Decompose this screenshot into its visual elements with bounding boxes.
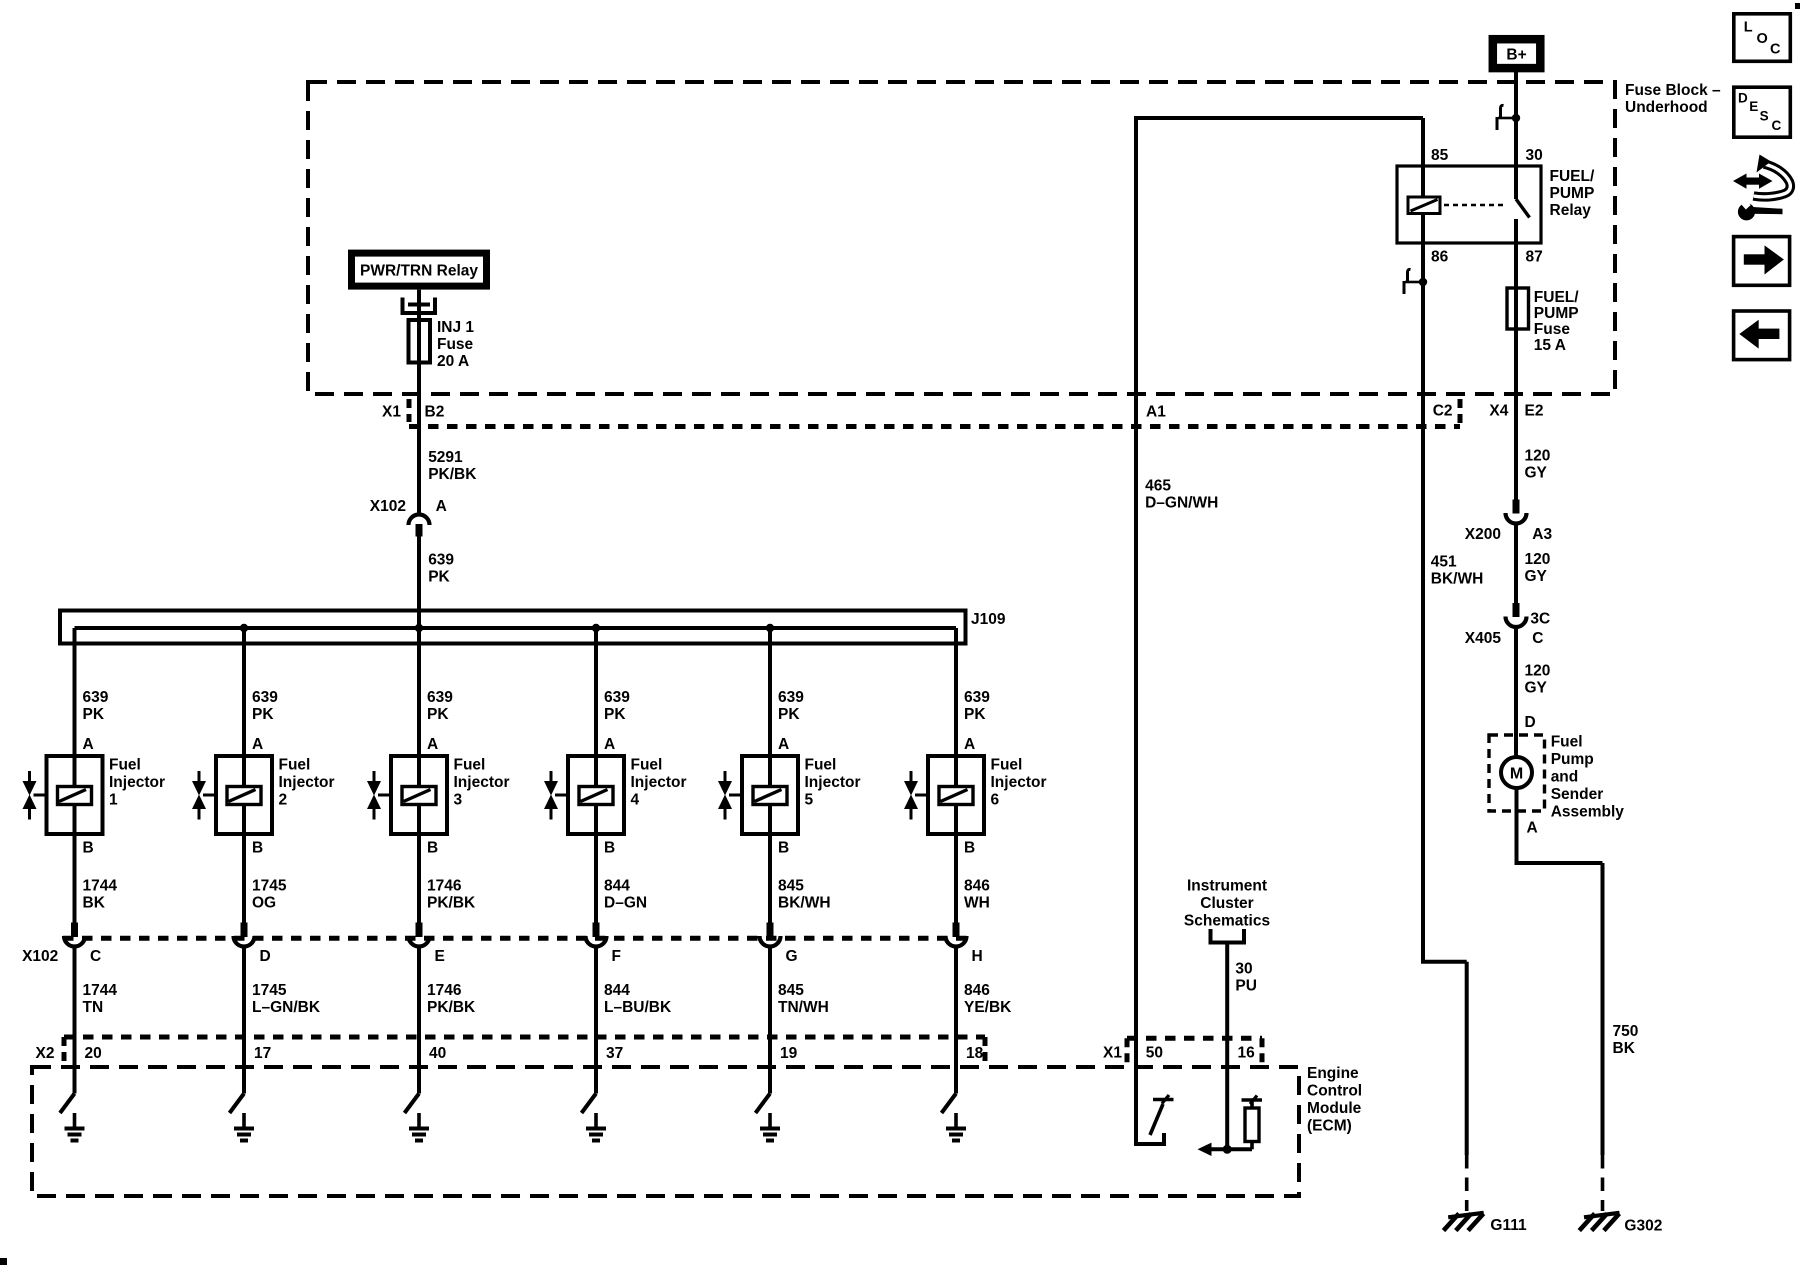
- svg-text:E: E: [435, 948, 445, 965]
- svg-text:D: D: [260, 948, 271, 965]
- svg-text:B2: B2: [425, 403, 445, 420]
- svg-text:S: S: [1760, 108, 1769, 123]
- svg-text:Injector: Injector: [279, 774, 335, 791]
- svg-text:and: and: [1551, 768, 1579, 785]
- svg-text:40: 40: [429, 1045, 446, 1062]
- svg-text:(ECM): (ECM): [1307, 1117, 1352, 1134]
- svg-text:M: M: [1510, 766, 1523, 783]
- svg-text:846: 846: [964, 982, 990, 999]
- svg-text:BK: BK: [83, 895, 106, 912]
- svg-text:120: 120: [1525, 448, 1551, 465]
- svg-text:Fuel: Fuel: [454, 756, 486, 773]
- svg-text:639: 639: [604, 689, 630, 706]
- svg-text:846: 846: [964, 878, 990, 895]
- svg-text:YE/BK: YE/BK: [964, 999, 1012, 1016]
- svg-text:15 A: 15 A: [1534, 337, 1566, 354]
- svg-text:BK/WH: BK/WH: [1431, 571, 1484, 588]
- svg-text:Fuel: Fuel: [279, 756, 311, 773]
- svg-text:X405: X405: [1465, 630, 1502, 647]
- svg-text:PK: PK: [778, 706, 800, 723]
- svg-text:PK: PK: [427, 706, 449, 723]
- svg-text:1745: 1745: [252, 878, 287, 895]
- svg-text:5: 5: [805, 791, 814, 808]
- svg-text:Injector: Injector: [631, 774, 687, 791]
- svg-text:FUEL/: FUEL/: [1534, 289, 1579, 306]
- svg-text:A3: A3: [1532, 526, 1552, 543]
- svg-text:85: 85: [1431, 147, 1449, 164]
- svg-text:TN/WH: TN/WH: [778, 999, 829, 1016]
- svg-text:X102: X102: [22, 948, 58, 965]
- svg-text:C: C: [1532, 630, 1543, 647]
- svg-text:PK: PK: [83, 706, 105, 723]
- svg-text:845: 845: [778, 982, 804, 999]
- svg-text:A: A: [83, 736, 94, 753]
- svg-text:Injector: Injector: [454, 774, 510, 791]
- svg-text:Assembly: Assembly: [1551, 803, 1625, 820]
- svg-text:C: C: [1772, 118, 1782, 133]
- svg-text:E: E: [1749, 99, 1758, 114]
- svg-text:OG: OG: [252, 895, 276, 912]
- svg-text:17: 17: [254, 1045, 271, 1062]
- svg-text:37: 37: [606, 1045, 623, 1062]
- svg-text:639: 639: [252, 689, 278, 706]
- svg-text:6: 6: [991, 791, 1000, 808]
- svg-text:Fuse: Fuse: [1534, 321, 1571, 338]
- svg-text:3C: 3C: [1530, 610, 1550, 627]
- svg-text:L: L: [1744, 20, 1753, 36]
- svg-text:Injector: Injector: [109, 774, 165, 791]
- svg-text:G302: G302: [1624, 1218, 1662, 1235]
- svg-text:Fuel: Fuel: [991, 756, 1023, 773]
- svg-text:Control: Control: [1307, 1082, 1362, 1099]
- svg-text:844: 844: [604, 878, 630, 895]
- svg-text:639: 639: [83, 689, 109, 706]
- svg-text:G: G: [786, 948, 798, 965]
- svg-text:86: 86: [1431, 249, 1449, 266]
- svg-text:20 A: 20 A: [437, 353, 469, 370]
- svg-text:PU: PU: [1235, 977, 1257, 994]
- svg-text:750: 750: [1613, 1023, 1639, 1040]
- svg-text:1746: 1746: [427, 878, 462, 895]
- svg-text:PK/BK: PK/BK: [427, 999, 476, 1016]
- svg-text:C2: C2: [1433, 403, 1453, 420]
- svg-text:A: A: [436, 498, 447, 515]
- svg-text:Injector: Injector: [991, 774, 1047, 791]
- svg-text:5291: 5291: [428, 449, 463, 466]
- svg-text:X102: X102: [370, 498, 406, 515]
- svg-text:Underhood: Underhood: [1625, 99, 1708, 116]
- svg-text:GY: GY: [1525, 679, 1548, 696]
- svg-text:465: 465: [1145, 478, 1171, 495]
- svg-text:FUEL/: FUEL/: [1550, 168, 1595, 185]
- svg-text:PK: PK: [428, 569, 450, 586]
- svg-text:50: 50: [1146, 1045, 1163, 1062]
- svg-text:L–GN/BK: L–GN/BK: [252, 999, 321, 1016]
- svg-text:Fuse: Fuse: [437, 336, 474, 353]
- svg-text:30: 30: [1235, 960, 1252, 977]
- svg-text:120: 120: [1525, 662, 1551, 679]
- svg-text:1745: 1745: [252, 982, 287, 999]
- svg-text:Module: Module: [1307, 1100, 1362, 1117]
- svg-text:1746: 1746: [427, 982, 462, 999]
- svg-text:B: B: [83, 840, 94, 857]
- svg-text:H: H: [972, 948, 983, 965]
- svg-text:GY: GY: [1525, 465, 1548, 482]
- svg-text:1744: 1744: [83, 878, 118, 895]
- svg-text:X1: X1: [382, 403, 401, 420]
- svg-text:Schematics: Schematics: [1184, 913, 1270, 930]
- svg-text:Fuel: Fuel: [805, 756, 837, 773]
- svg-text:PUMP: PUMP: [1534, 305, 1579, 322]
- svg-text:Fuse Block –: Fuse Block –: [1625, 82, 1721, 99]
- svg-text:120: 120: [1525, 551, 1551, 568]
- svg-text:F: F: [612, 948, 621, 965]
- svg-text:PK: PK: [964, 706, 986, 723]
- svg-text:Fuel: Fuel: [631, 756, 663, 773]
- svg-text:BK: BK: [1613, 1040, 1636, 1057]
- svg-text:B: B: [604, 840, 615, 857]
- svg-text:639: 639: [778, 689, 804, 706]
- svg-text:X200: X200: [1465, 526, 1501, 543]
- svg-text:1744: 1744: [83, 982, 118, 999]
- svg-text:TN: TN: [83, 999, 104, 1016]
- svg-text:20: 20: [85, 1045, 102, 1062]
- svg-text:A1: A1: [1146, 403, 1166, 420]
- svg-text:PK: PK: [252, 706, 274, 723]
- svg-text:18: 18: [966, 1045, 984, 1062]
- svg-text:A: A: [778, 736, 789, 753]
- svg-text:451: 451: [1431, 554, 1457, 571]
- svg-text:X2: X2: [36, 1045, 55, 1062]
- svg-text:Relay: Relay: [1550, 202, 1592, 219]
- svg-text:C: C: [1770, 42, 1781, 58]
- svg-text:PUMP: PUMP: [1550, 185, 1595, 202]
- svg-text:A: A: [1527, 819, 1538, 836]
- svg-text:845: 845: [778, 878, 804, 895]
- svg-text:1: 1: [109, 791, 118, 808]
- svg-text:16: 16: [1238, 1045, 1256, 1062]
- svg-text:87: 87: [1526, 249, 1543, 266]
- svg-text:GY: GY: [1525, 568, 1548, 585]
- svg-text:B: B: [252, 840, 263, 857]
- svg-text:A: A: [604, 736, 615, 753]
- svg-text:Fuel: Fuel: [109, 756, 141, 773]
- svg-text:D: D: [1525, 714, 1536, 731]
- svg-text:639: 639: [427, 689, 453, 706]
- svg-text:X4: X4: [1489, 403, 1508, 420]
- svg-text:G111: G111: [1490, 1217, 1527, 1234]
- svg-text:D–GN: D–GN: [604, 895, 647, 912]
- svg-text:PWR/TRN Relay: PWR/TRN Relay: [360, 262, 478, 279]
- svg-text:B+: B+: [1506, 47, 1526, 64]
- svg-text:PK/BK: PK/BK: [427, 895, 476, 912]
- svg-text:Instrument: Instrument: [1187, 878, 1267, 895]
- svg-text:A: A: [427, 736, 438, 753]
- svg-text:C: C: [90, 948, 101, 965]
- svg-text:BK/WH: BK/WH: [778, 895, 831, 912]
- svg-text:INJ 1: INJ 1: [437, 319, 474, 336]
- svg-text:B: B: [964, 840, 975, 857]
- svg-text:Fuel: Fuel: [1551, 733, 1583, 750]
- svg-text:19: 19: [780, 1045, 798, 1062]
- svg-text:4: 4: [631, 791, 640, 808]
- svg-text:639: 639: [428, 552, 454, 569]
- svg-text:Sender: Sender: [1551, 786, 1604, 803]
- svg-text:X1: X1: [1103, 1045, 1122, 1062]
- svg-text:639: 639: [964, 689, 990, 706]
- svg-text:Injector: Injector: [805, 774, 861, 791]
- svg-text:A: A: [964, 736, 975, 753]
- svg-text:B: B: [778, 840, 789, 857]
- svg-text:D: D: [1738, 90, 1748, 105]
- svg-text:D–GN/WH: D–GN/WH: [1145, 495, 1218, 512]
- svg-text:PK/BK: PK/BK: [428, 466, 477, 483]
- svg-text:E2: E2: [1525, 403, 1544, 420]
- svg-text:O: O: [1757, 31, 1768, 47]
- svg-text:A: A: [252, 736, 263, 753]
- svg-text:30: 30: [1526, 147, 1543, 164]
- svg-text:Pump: Pump: [1551, 751, 1594, 768]
- svg-text:B: B: [427, 840, 438, 857]
- svg-text:Engine: Engine: [1307, 1065, 1359, 1082]
- svg-text:Cluster: Cluster: [1200, 895, 1253, 912]
- svg-text:J109: J109: [971, 611, 1006, 628]
- svg-text:2: 2: [279, 791, 288, 808]
- svg-text:3: 3: [454, 791, 463, 808]
- svg-text:WH: WH: [964, 895, 990, 912]
- svg-text:L–BU/BK: L–BU/BK: [604, 999, 672, 1016]
- svg-text:844: 844: [604, 982, 630, 999]
- svg-text:PK: PK: [604, 706, 626, 723]
